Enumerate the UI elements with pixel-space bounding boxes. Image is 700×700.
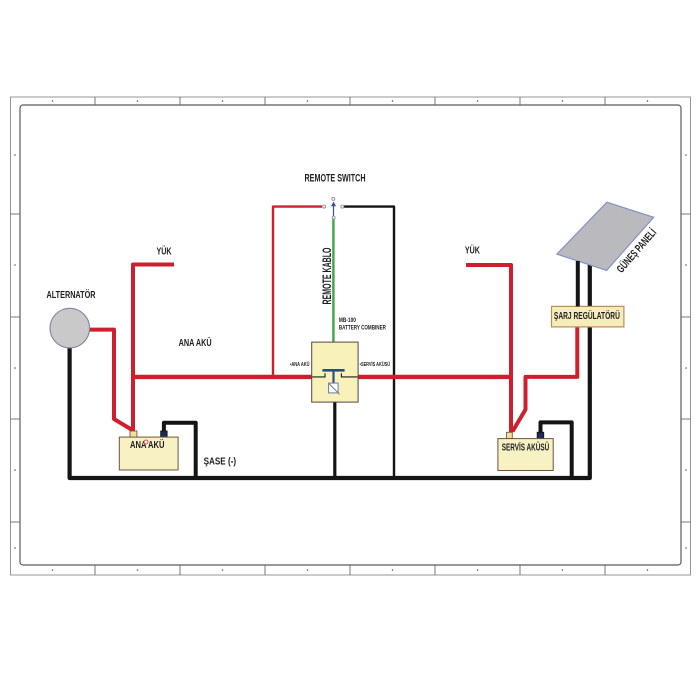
combiner left fixed contact (pin +ANA AKÜ) — [312, 373, 325, 377]
svg-text:SERVİS AKÜSÜ: SERVİS AKÜSÜ — [502, 441, 550, 454]
güneş paneli (solar panel) — [557, 202, 654, 270]
svg-text:ŞARJ REGÜLATÖRÜ: ŞARJ REGÜLATÖRÜ — [554, 309, 620, 322]
wire: chassis ground bus ŞASE (-) from alternator body down-right to solar panel negative — [70, 264, 590, 478]
battery ANA AKÜ positive terminal post — [130, 431, 137, 438]
positive mark on ANA AKÜ label — [144, 440, 148, 444]
battery combiner U1 MB-100 (case) — [312, 342, 358, 402]
border division dots — [14, 100, 687, 571]
svg-text:•SERVİS AKÜSÜ: •SERVİS AKÜSÜ — [360, 361, 391, 368]
wire: YÜK right feed down to SERVİS AKÜSÜ positive (red) — [466, 265, 511, 432]
battery ANA AKÜ (case) — [119, 437, 178, 470]
svg-text:MB-100: MB-100 — [339, 318, 357, 324]
wire: alternator output to ANA AKÜ positive (red) — [89, 330, 133, 431]
wire: battery combiner case to chassis bus (black) — [333, 400, 336, 478]
wire: şarj regülatörü output to SERVİS AKÜSÜ positive (red) — [513, 326, 578, 432]
svg-text:ANA AKÜ: ANA AKÜ — [130, 438, 165, 451]
border tick marks — [11, 97, 691, 575]
battery SERVİS AKÜSÜ positive terminal post — [506, 432, 512, 438]
svg-text:YÜK: YÜK — [157, 244, 173, 257]
wire: SERVİS AKÜSÜ negative terminal to chassis bus (black) — [541, 422, 572, 478]
şarj regülatörü (charge regulator box) — [552, 306, 624, 327]
wire: ANA AKÜ negative terminal to chassis bus (black) — [164, 423, 196, 478]
alternator (circle) — [50, 308, 90, 348]
wire: remote switch left terminal to positive bus (thin red) — [273, 207, 322, 377]
sheet outer border — [11, 97, 691, 575]
svg-text:ŞASE (-): ŞASE (-) — [204, 456, 237, 468]
combiner relay moving bar — [322, 369, 344, 372]
combiner right fixed contact (pin +SERVİS AKÜSÜ) — [341, 373, 357, 377]
battery ANA AKÜ negative terminal post — [161, 431, 167, 438]
combiner relay stem — [332, 371, 334, 384]
wire: positive bus, combiner right pin to SERVİS AKÜSÜ node (red) — [358, 375, 512, 379]
combiner coil (box with diagonal) — [329, 383, 339, 393]
svg-text:ANA AKÜ: ANA AKÜ — [179, 336, 212, 349]
svg-text:REMOTE KABLO: REMOTE KABLO — [320, 248, 334, 305]
wire: YÜK left feed down to ANA AKÜ positive (red) — [133, 265, 174, 432]
wire: positive bus, ANA AKÜ side to combiner left pin (red) — [131, 375, 313, 379]
svg-text:YÜK: YÜK — [465, 243, 481, 256]
sheet inner border — [20, 105, 681, 565]
svg-text:ALTERNATÖR: ALTERNATÖR — [47, 288, 96, 301]
wire: remote switch right terminal to chassis bus (thin black) — [344, 207, 394, 478]
battery SERVİS AKÜSÜ negative terminal post — [537, 432, 544, 438]
solar panel positive lead into regulator — [576, 261, 580, 306]
wire: REMOTE KABLO green control wire from switch to combiner — [332, 219, 334, 343]
svg-text:•ANA AKÜ: •ANA AKÜ — [290, 361, 310, 368]
svg-text:BATTERY COMBINER: BATTERY COMBINER — [339, 326, 387, 332]
svg-text:REMOTE SWITCH: REMOTE SWITCH — [305, 173, 366, 185]
battery SERVİS AKÜSÜ (case) — [498, 439, 553, 471]
remote switch S1 (blade with arrow and terminals) — [323, 197, 344, 219]
